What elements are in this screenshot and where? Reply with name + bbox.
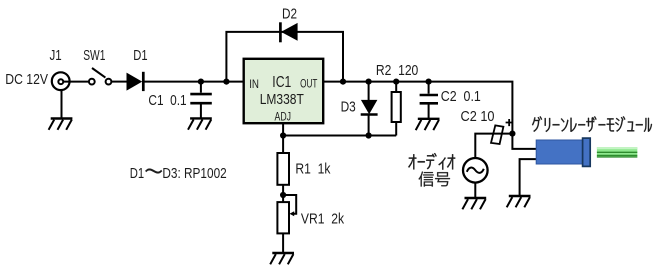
svg-text:IC1: IC1 (272, 74, 291, 91)
svg-text:R2 120: R2 120 (376, 62, 418, 79)
svg-text:IN: IN (249, 79, 259, 91)
svg-text:C2 10: C2 10 (461, 108, 495, 125)
svg-text:D3: RP1002: D3: RP1002 (162, 165, 226, 182)
svg-text:D3: D3 (341, 99, 356, 116)
svg-text:J1: J1 (50, 47, 62, 64)
svg-text:DC 12V: DC 12V (5, 71, 48, 88)
svg-text:R1 1k: R1 1k (295, 161, 330, 178)
svg-text:D2: D2 (282, 6, 297, 23)
svg-text:C1 0.1: C1 0.1 (148, 92, 186, 109)
svg-text:VR1 2k: VR1 2k (301, 210, 345, 227)
svg-text:LM338T: LM338T (260, 91, 304, 108)
svg-text:D1: D1 (133, 47, 147, 64)
svg-text:ADJ: ADJ (275, 111, 292, 123)
svg-text:SW1: SW1 (83, 47, 105, 64)
svg-text:C2 0.1: C2 0.1 (441, 88, 481, 105)
svg-text:OUT: OUT (300, 79, 317, 91)
svg-text:D1: D1 (130, 165, 144, 182)
